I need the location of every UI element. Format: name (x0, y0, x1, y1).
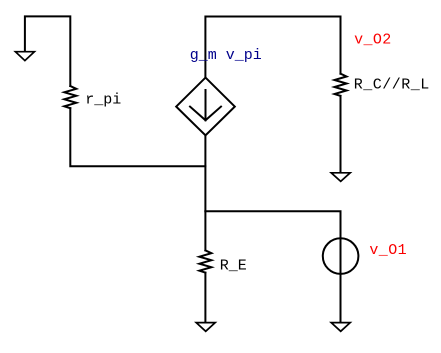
resistor r_pi (64, 86, 76, 108)
svg-text:g_m v_pi: g_m v_pi (190, 47, 262, 64)
wire (25, 16, 70, 86)
wire (340, 17, 342, 74)
svg-text:r_pi: r_pi (85, 92, 121, 109)
dependent current source g_m v_pi (176, 78, 235, 136)
svg-text:R_E: R_E (220, 258, 247, 275)
ground (196, 323, 215, 332)
resistor R_E (199, 250, 211, 272)
ground (331, 173, 350, 182)
svg-text:v_O2: v_O2 (354, 31, 392, 48)
svg-text:R_C//R_L: R_C//R_L (354, 77, 430, 94)
wire (204, 273, 206, 324)
wire (340, 96, 342, 174)
svg-text:v_O1: v_O1 (369, 242, 407, 259)
wire (70, 108, 205, 166)
wire (205, 211, 340, 324)
ground (331, 323, 350, 332)
independent source v_O1 (323, 238, 359, 274)
wire (204, 135, 206, 250)
ground (15, 52, 34, 61)
resistor R_C//R_L (335, 74, 347, 96)
wire (205, 17, 340, 78)
